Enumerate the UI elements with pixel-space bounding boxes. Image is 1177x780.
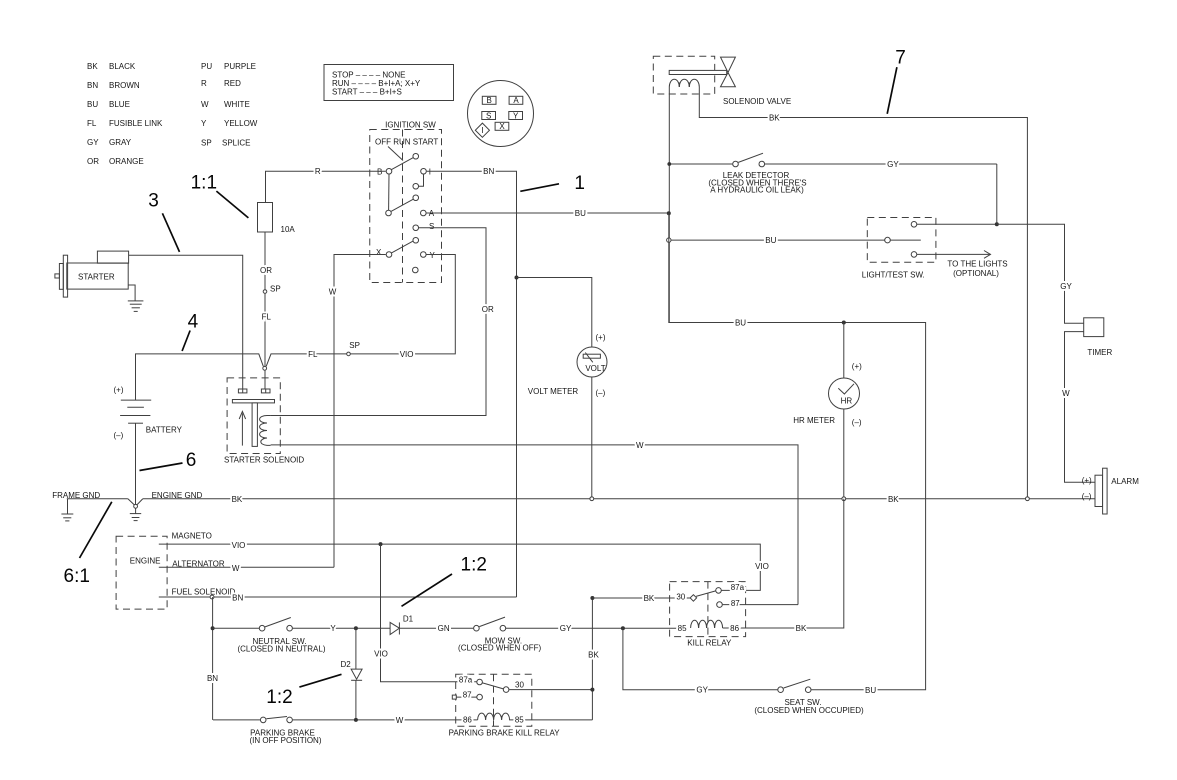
svg-text:(+): (+): [596, 333, 606, 342]
svg-text:X: X: [376, 248, 382, 257]
svg-text:LIGHT/TEST SW.: LIGHT/TEST SW.: [862, 271, 925, 280]
svg-text:OR: OR: [482, 305, 494, 314]
diode D2: [355, 628, 357, 669]
svg-text:SP: SP: [270, 284, 281, 293]
svg-text:VOLT: VOLT: [585, 364, 605, 373]
battery B1: [114, 386, 183, 440]
PB relay contact 87a: [477, 679, 483, 685]
svg-text:(OPTIONAL): (OPTIONAL): [953, 269, 999, 278]
frame ground wire: [67, 498, 128, 500]
svg-text:BLUE: BLUE: [109, 100, 130, 109]
kill relay K3 box: [670, 582, 746, 637]
svg-text:BROWN: BROWN: [109, 81, 140, 90]
svg-text:BK: BK: [588, 651, 599, 660]
svg-text:GY: GY: [696, 686, 708, 695]
neutral switch SW1: [259, 625, 265, 631]
svg-text:W: W: [232, 564, 240, 573]
solenoid terminal right: [261, 389, 270, 393]
gang link B to RUN pole: [388, 174, 390, 210]
wire W parking brake to PB kill relay coil: [293, 719, 478, 721]
svg-text:(–): (–): [596, 389, 606, 398]
svg-text:(–): (–): [1082, 492, 1092, 501]
svg-text:SP: SP: [201, 139, 212, 148]
light/test common contact: [885, 237, 891, 243]
svg-text:(–): (–): [852, 418, 862, 427]
wire to HR meter plus: [843, 323, 845, 379]
fuse F1 10A: [258, 203, 273, 233]
svg-text:OR: OR: [87, 157, 99, 166]
svg-text:OFF RUN START: OFF RUN START: [375, 137, 438, 146]
svg-text:(+): (+): [114, 386, 124, 395]
ignition switch box: [370, 130, 442, 283]
battery positive wire (callout 4 wire): [136, 354, 264, 400]
svg-text:VIO: VIO: [374, 650, 388, 659]
frame ground symbol: [61, 499, 73, 521]
svg-text:(IN OFF POSITION): (IN OFF POSITION): [250, 736, 322, 745]
svg-text:YELLOW: YELLOW: [224, 119, 258, 128]
contact below I with hook: [413, 183, 419, 189]
svg-text:(–): (–): [114, 431, 124, 440]
wire to volt meter plus: [517, 278, 592, 348]
svg-text:X: X: [499, 122, 505, 131]
svg-text:FL: FL: [87, 119, 97, 128]
svg-text:STARTER SOLENOID: STARTER SOLENOID: [224, 456, 304, 465]
svg-text:W: W: [396, 716, 404, 725]
svg-text:VIO: VIO: [400, 350, 414, 359]
solenoid contact T-bar: [232, 400, 274, 403]
wire BU from solenoid node to seat switch: [669, 213, 926, 689]
junction magneto to D-branch: [379, 542, 383, 546]
svg-text:1:2: 1:2: [266, 687, 292, 708]
ignition switch inner divider: [402, 130, 404, 283]
wire BN down to parking brake: [212, 597, 214, 720]
starter motor M1: [67, 263, 128, 289]
junction BU at solenoid lead: [667, 211, 671, 215]
wire starter to solenoid terminal (callout 3 wire): [129, 255, 243, 389]
pin Y: [509, 112, 523, 120]
svg-text:D2: D2: [341, 660, 352, 669]
ignition switch connector face: [468, 81, 534, 147]
PB relay blade 87a-30: [483, 683, 504, 689]
wire R from fuse to ignition B: [266, 171, 386, 202]
svg-text:86: 86: [730, 624, 739, 633]
svg-text:BK: BK: [232, 495, 243, 504]
svg-text:VIO: VIO: [232, 541, 246, 550]
svg-text:BU: BU: [575, 209, 586, 218]
splice SP on FL wire: [347, 352, 351, 356]
svg-text:Y: Y: [201, 119, 207, 128]
svg-text:87a: 87a: [459, 676, 473, 685]
junction D2 to W wire: [354, 718, 358, 722]
RIGHTAREA: [520, 48, 1139, 695]
PB relay coil 86-85: [478, 713, 593, 720]
parking brake kill relay K2 box: [456, 674, 532, 726]
blade X: [392, 241, 414, 253]
svg-text:BK: BK: [796, 624, 807, 633]
wire BK ground bus down to kill relay 86: [723, 499, 844, 628]
main ground bus BK wire: [143, 498, 1095, 500]
engine ground symbol: [130, 508, 141, 520]
svg-text:BN: BN: [232, 594, 243, 603]
svg-text:GRAY: GRAY: [109, 138, 132, 147]
svg-text:BN: BN: [483, 167, 494, 176]
PB relay contact 30: [503, 687, 509, 693]
svg-text:87a: 87a: [731, 583, 745, 592]
svg-text:FRAME GND: FRAME GND: [52, 491, 100, 500]
svg-text:PURPLE: PURPLE: [224, 62, 256, 71]
svg-text:GY: GY: [1060, 282, 1072, 291]
MIDAREA: [143, 167, 1095, 720]
svg-text:GY: GY: [560, 624, 572, 633]
kill relay contact 30 (diamond): [690, 595, 697, 602]
contact RUN-left: [386, 210, 392, 216]
svg-text:BU: BU: [87, 100, 98, 109]
svg-text:I: I: [481, 126, 483, 135]
svg-text:(CLOSED WHEN OFF): (CLOSED WHEN OFF): [458, 643, 541, 652]
svg-text:IGNITION SW: IGNITION SW: [385, 121, 436, 130]
svg-text:BLACK: BLACK: [109, 62, 136, 71]
svg-text:1:2: 1:2: [461, 555, 487, 576]
wire BK to kill relay 30: [592, 597, 690, 599]
light/test contact top: [911, 222, 917, 228]
svg-text:ENGINE: ENGINE: [130, 557, 161, 566]
neutral switch wire: [213, 627, 259, 629]
selector pointer line: [388, 147, 403, 161]
svg-text:GY: GY: [87, 138, 99, 147]
junction D2 branch: [354, 626, 358, 630]
contact Y: [421, 252, 427, 258]
svg-text:FUSIBLE LINK: FUSIBLE LINK: [109, 119, 163, 128]
svg-text:10A: 10A: [281, 225, 296, 234]
wire GY to timer: [997, 224, 1084, 323]
solenoid coil: [260, 416, 271, 446]
solenoid terminal left: [238, 389, 247, 393]
solenoid coil W wire to kill relay 87: [271, 445, 798, 605]
BOTTOMAREA: [211, 555, 864, 745]
solenoid valve box: [653, 56, 714, 94]
fuel solenoid wire BN: [159, 596, 517, 598]
junction BN to neutral switch: [211, 626, 215, 630]
svg-text:A HYDRAULIC OIL LEAK): A HYDRAULIC OIL LEAK): [710, 186, 804, 195]
svg-text:SOLENOID VALVE: SOLENOID VALVE: [723, 97, 791, 106]
junction seat switch branch: [621, 626, 625, 630]
junction GY above light/test: [995, 222, 999, 226]
contact X: [386, 252, 392, 258]
svg-text:VOLT METER: VOLT METER: [528, 387, 579, 396]
svg-text:GY: GY: [887, 160, 899, 169]
svg-text:SP: SP: [349, 341, 360, 350]
svg-text:87: 87: [463, 690, 472, 699]
svg-text:MAGNETO: MAGNETO: [172, 531, 212, 540]
contact start-upper: [413, 153, 419, 159]
svg-text:I: I: [429, 168, 431, 177]
PB relay wire 30 to BK vertical: [509, 689, 592, 691]
fusible link wire FL to Y contact: [266, 255, 455, 367]
engine ground node: [128, 499, 143, 505]
svg-text:B: B: [487, 96, 492, 105]
wire BU from solenoid node to light/test: [671, 239, 885, 241]
wire OR from ignition S to solenoid coil: [271, 228, 486, 416]
contact spare bottom: [413, 267, 419, 273]
battery negative wire to engine ground: [135, 423, 137, 504]
svg-text:BN: BN: [207, 674, 218, 683]
starter ground stub: [128, 285, 135, 301]
svg-text:BN: BN: [87, 81, 98, 90]
V junction circle: [263, 366, 267, 370]
svg-text:W: W: [636, 441, 644, 450]
svg-text:S: S: [429, 222, 434, 231]
alternator wire W: [159, 566, 334, 568]
junction HR meter branch: [842, 321, 846, 325]
diode D1: [390, 622, 399, 634]
svg-text:PU: PU: [201, 62, 212, 71]
svg-text:BU: BU: [735, 319, 746, 328]
svg-text:SPLICE: SPLICE: [222, 139, 250, 148]
timer output wire W to alarm plus: [1065, 332, 1096, 483]
pin S: [482, 112, 496, 120]
svg-text:86: 86: [463, 716, 472, 725]
svg-text:FL: FL: [262, 313, 272, 322]
svg-text:FL: FL: [308, 350, 318, 359]
contact B: [386, 168, 392, 174]
solenoid plunger arrow: [241, 413, 243, 445]
svg-text:1:1: 1:1: [191, 172, 217, 193]
kill relay blade 30-87a: [696, 591, 716, 597]
svg-text:TIMER: TIMER: [1087, 348, 1112, 357]
svg-text:85: 85: [515, 716, 524, 725]
solenoid valve coil: [669, 79, 699, 87]
solenoid valve left lead down to BU node: [668, 87, 670, 323]
wire BU from ignition A: [427, 212, 669, 214]
kill relay contact 87: [717, 602, 723, 608]
engine box: [116, 536, 167, 609]
wire fuse to V junction: [264, 232, 266, 367]
svg-text:BK: BK: [769, 114, 780, 123]
svg-text:VIO: VIO: [755, 562, 769, 571]
svg-text:1: 1: [574, 173, 585, 194]
ground symbol (starter): [128, 301, 144, 312]
wire X to W vertical: [334, 255, 386, 568]
svg-text:(+): (+): [1082, 476, 1092, 485]
svg-text:Y: Y: [330, 624, 336, 633]
svg-text:30: 30: [515, 680, 524, 689]
svg-text:KILL RELAY: KILL RELAY: [687, 638, 732, 647]
svg-text:ORANGE: ORANGE: [109, 157, 144, 166]
svg-text:A: A: [513, 96, 519, 105]
svg-text:W: W: [201, 100, 209, 109]
svg-text:PARKING BRAKE KILL RELAY: PARKING BRAKE KILL RELAY: [449, 729, 561, 738]
svg-text:W: W: [329, 287, 337, 296]
svg-text:B: B: [377, 168, 382, 177]
svg-text:4: 4: [188, 312, 199, 333]
wire GY mow switch to kill relay 85: [506, 627, 688, 629]
wire GN D1 to mow switch: [399, 627, 473, 629]
svg-text:R: R: [201, 79, 207, 88]
svg-text:S: S: [486, 111, 491, 120]
svg-text:(+): (+): [852, 362, 862, 371]
svg-text:(CLOSED IN NEUTRAL): (CLOSED IN NEUTRAL): [237, 644, 325, 653]
pin X: [495, 122, 509, 130]
wire BK from solenoid valve to alarm bus: [699, 87, 1027, 498]
svg-text:BK: BK: [888, 495, 899, 504]
svg-text:W: W: [1062, 389, 1070, 398]
light/test contact bottom with lights arrow: [911, 252, 917, 258]
wire volt meter minus to ground bus: [591, 377, 593, 499]
switch-position legend box: [324, 65, 454, 101]
volt meter M2: [528, 333, 607, 398]
pin A: [509, 96, 523, 104]
kill relay contact 87a: [716, 588, 722, 594]
wire Y neutral to D1: [293, 627, 390, 629]
wire GY down to light/test junction: [996, 164, 998, 224]
svg-text:D1: D1: [403, 615, 414, 624]
svg-text:85: 85: [678, 624, 687, 633]
BK vertical bus: [591, 598, 593, 720]
contact S: [413, 225, 419, 231]
wire seat switch branch: [623, 628, 778, 690]
light/test switch box: [867, 218, 936, 263]
svg-text:BK: BK: [87, 62, 98, 71]
svg-text:STARTER: STARTER: [78, 273, 115, 282]
svg-text:Y: Y: [430, 251, 436, 260]
wire V junction to solenoid terminal: [264, 370, 266, 389]
wire HR meter minus to ground bus: [843, 409, 845, 499]
svg-text:BK: BK: [644, 594, 655, 603]
STOPBOX: [324, 65, 454, 101]
starter solenoid K1 box: [227, 378, 280, 454]
wire VIO branch down to parking brake relay 87a: [381, 544, 477, 682]
alarm LS1: [1082, 468, 1139, 514]
svg-text:GN: GN: [438, 624, 450, 633]
mow switch SW2: [474, 625, 480, 631]
LEGEND: [87, 62, 258, 166]
HR meter M3: [793, 362, 862, 427]
timer U1: [1084, 318, 1104, 337]
svg-text:(CLOSED WHEN OCCUPIED): (CLOSED WHEN OCCUPIED): [754, 706, 864, 715]
PB relay terminal 87: [452, 695, 456, 699]
kill relay coil 85-86: [691, 620, 723, 628]
svg-text:30: 30: [676, 593, 685, 602]
svg-text:HR METER: HR METER: [793, 416, 835, 425]
svg-text:BATTERY: BATTERY: [146, 426, 183, 435]
pin B: [482, 96, 496, 104]
svg-text:6:1: 6:1: [64, 566, 90, 587]
contact RUN-upper: [413, 195, 419, 201]
LEFTAREA: [52, 167, 455, 609]
solenoid valve body (bowtie): [721, 57, 736, 87]
blade B-start: [392, 158, 414, 170]
seat switch SW4: [778, 687, 784, 693]
contact I: [421, 168, 427, 174]
svg-text:6: 6: [186, 450, 197, 471]
svg-text:WHITE: WHITE: [224, 100, 250, 109]
svg-text:HR: HR: [841, 396, 853, 405]
svg-text:ALARM: ALARM: [1111, 477, 1139, 486]
svg-text:87: 87: [731, 599, 740, 608]
svg-text:7: 7: [895, 48, 906, 69]
svg-text:RED: RED: [224, 79, 241, 88]
svg-text:BU: BU: [765, 236, 776, 245]
svg-text:3: 3: [148, 191, 159, 212]
CONNECTOR: [468, 81, 534, 147]
svg-text:R: R: [315, 167, 321, 176]
svg-text:BU: BU: [865, 686, 876, 695]
svg-text:OR: OR: [260, 266, 272, 275]
svg-text:Y: Y: [513, 111, 519, 120]
svg-text:TO THE LIGHTS: TO THE LIGHTS: [947, 259, 1007, 268]
fuel solenoid junction: [210, 595, 214, 599]
wire BN from ignition I: [427, 171, 517, 597]
svg-text:FUEL SOLENOID: FUEL SOLENOID: [172, 588, 236, 597]
splice SP on fuse wire: [263, 290, 267, 294]
leak detector switch: [667, 153, 996, 194]
parking brake switch SW3: [213, 719, 260, 721]
blade RUN: [391, 199, 413, 211]
junction volt meter branch: [515, 276, 519, 280]
pin I (diamond): [475, 123, 489, 137]
magneto wire VIO: [159, 544, 761, 590]
solenoid valve plunger: [669, 70, 727, 74]
svg-text:A: A: [429, 209, 435, 218]
contact A: [421, 210, 427, 216]
svg-text:START – – – B+I+S: START – – – B+I+S: [332, 88, 402, 97]
contact X-upper: [413, 237, 419, 243]
IGNITION: [370, 121, 442, 283]
